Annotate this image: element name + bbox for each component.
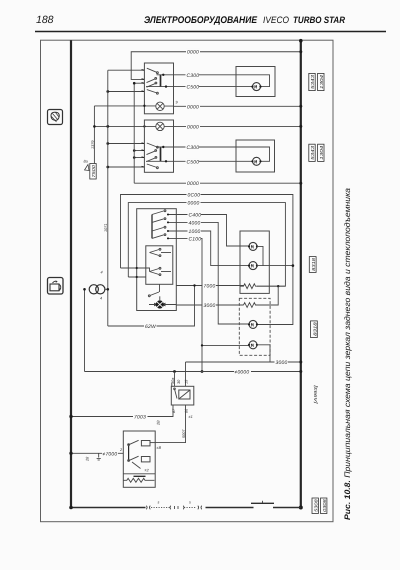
code box 5308 [312, 498, 318, 514]
svg-text:M: M [251, 343, 254, 349]
motor M1 [253, 83, 261, 91]
svg-text:5: 5 [189, 501, 191, 505]
svg-text:0000: 0000 [187, 50, 199, 56]
svg-text:0000: 0000 [187, 124, 199, 130]
svg-text:8a: 8a [84, 160, 88, 164]
relay K1 box [171, 386, 194, 405]
motor M4 [249, 262, 257, 270]
header rule [35, 31, 386, 33]
svg-text:1304: 1304 [319, 74, 324, 89]
wire 0000 lamp2 return [164, 125, 300, 127]
window switch box [123, 431, 155, 487]
inner diagonal [132, 462, 141, 469]
contact arm up [129, 440, 139, 445]
node: right rail top [299, 39, 303, 43]
contact arm 3 [147, 83, 156, 87]
svg-text:8318: 8318 [311, 257, 316, 271]
wire 0C00 [121, 195, 293, 325]
code box 1304 b [318, 144, 324, 161]
svg-text:C300: C300 [187, 73, 200, 79]
contact arm 4 [147, 164, 157, 168]
wire vertical feed left [84, 289, 86, 371]
svg-text:0C00: 0C00 [188, 193, 201, 199]
contact below inner box [150, 292, 159, 296]
contact arm r1 [152, 211, 164, 215]
switch box S2 [144, 120, 173, 172]
svg-text:8318: 8318 [312, 321, 317, 335]
contact arm 3 [147, 158, 156, 162]
svg-text:7003: 7003 [134, 415, 146, 421]
icon: rear-view mirror pictogram [48, 110, 63, 125]
lamp L2 [156, 122, 164, 130]
contact arm 2 [147, 79, 156, 83]
svg-text:M: M [254, 85, 257, 91]
node: bus-left rail junction [69, 506, 73, 510]
row4 entry wire [108, 166, 145, 168]
svg-text:C500: C500 [187, 85, 200, 91]
wire C500 to motor [174, 86, 253, 88]
wire 0000 lamp return [174, 105, 301, 107]
connector 8a arrow [85, 165, 90, 171]
contact row C500b inside [146, 160, 174, 162]
motor M2 [253, 157, 261, 165]
divider line [123, 473, 155, 475]
svg-text:≠B: ≠B [157, 446, 162, 450]
svg-text:28: 28 [85, 456, 89, 462]
wire C100 [176, 238, 202, 371]
svg-text:≠7000: ≠7000 [103, 451, 118, 457]
common bar [128, 444, 130, 461]
connector group on bus [170, 506, 184, 510]
bottom ground bus [71, 507, 146, 509]
svg-text:4: 4 [100, 297, 102, 301]
svg-text:0000: 0000 [187, 104, 199, 110]
right power rail [300, 40, 302, 507]
pin 15 wire up to 3000 [185, 362, 187, 386]
heater marks [134, 475, 146, 477]
svg-text:30a: 30a [171, 378, 175, 384]
wire C500b to motor [174, 160, 253, 162]
svg-text:IVECO: IVECO [263, 15, 289, 25]
svg-text:≠0000: ≠0000 [235, 370, 250, 376]
svg-text:4000: 4000 [189, 220, 201, 226]
panel lamp (filled) [156, 300, 164, 308]
contact row C500 inside [146, 86, 174, 88]
svg-text:1379: 1379 [91, 140, 95, 149]
contact bar [160, 75, 162, 87]
inner contact pair 1 [150, 250, 160, 256]
contact arm r2 [152, 219, 164, 223]
svg-text:0000: 0000 [187, 181, 199, 187]
inner contact pair 2 [150, 269, 160, 275]
wire pin1 to relay86 [150, 442, 155, 444]
code box 5343 b [309, 144, 315, 161]
contact arm r4 [152, 235, 164, 239]
contact arm down [129, 456, 139, 461]
contact row C300 inside [157, 74, 174, 76]
svg-text:62W: 62W [145, 324, 157, 330]
svg-text:5: 5 [158, 501, 160, 505]
wire C300 to motor [174, 74, 237, 76]
svg-text:ЭЛЕКТРООБОРУДОВАНИЕ: ЭЛЕКТРООБОРУДОВАНИЕ [144, 15, 258, 26]
row3 entry wire [134, 82, 144, 84]
svg-text:[A993]: [A993] [313, 384, 318, 405]
svg-text:0308: 0308 [322, 499, 327, 512]
lamp stubs [149, 304, 176, 306]
wire 0000 bottom of block2 [134, 182, 301, 184]
svg-text:C400: C400 [189, 213, 202, 219]
entry wires into inner box [121, 268, 150, 272]
outer diagram frame [41, 40, 334, 522]
wire +0000 main feed [85, 371, 301, 373]
svg-text:C300: C300 [187, 145, 200, 151]
row3 entry wire [134, 157, 144, 159]
svg-text:M: M [251, 244, 254, 250]
connector pair on bus [198, 506, 202, 510]
motor M5 [249, 320, 257, 328]
wire C400 [176, 215, 249, 247]
contact arm 4 [147, 90, 157, 93]
svg-text:4: 4 [101, 271, 103, 275]
row1 entry wire [108, 143, 145, 145]
wire 4000 [176, 222, 249, 324]
pin 30 wire up to feed [174, 372, 176, 387]
ground tick mark [97, 453, 101, 460]
svg-text:1304: 1304 [319, 145, 324, 160]
code box 1304 [318, 73, 324, 90]
code box 8318 b [311, 321, 318, 338]
pin marks S2 left [142, 143, 144, 167]
svg-text:0000: 0000 [188, 201, 200, 207]
contact arm r3 [152, 228, 164, 232]
terminal pin 2 [141, 457, 150, 462]
common bar [151, 215, 153, 239]
motor feed path inside [236, 75, 270, 87]
motor M6 [249, 341, 257, 349]
wire C300b to motor [174, 146, 237, 148]
contact arm 1 [147, 68, 157, 72]
connector box 7500 [90, 164, 96, 180]
lamp row wire left [94, 125, 155, 127]
connector pair on bus [146, 506, 150, 510]
relay coil [179, 390, 190, 399]
svg-text:C100: C100 [189, 236, 202, 242]
svg-text:2B: 2B [157, 420, 161, 426]
wire 0000 feed top [131, 52, 301, 80]
svg-text:5308: 5308 [313, 499, 318, 512]
pin marks S1 left [142, 70, 144, 92]
svg-text:M: M [254, 159, 257, 165]
lamp L1 [156, 102, 164, 110]
motor assembly box upper [240, 231, 269, 293]
switch box S1 [144, 63, 173, 114]
svg-text:7500: 7500 [91, 164, 96, 177]
wire 0000b2 [128, 203, 285, 287]
svg-text:5007: 5007 [182, 429, 186, 438]
contact arm 1 [147, 143, 157, 147]
wire vertical to connector 8a [93, 106, 95, 164]
svg-text:1000: 1000 [189, 229, 201, 235]
svg-text:7000: 7000 [204, 284, 216, 290]
svg-text:≠1: ≠1 [189, 415, 193, 419]
resistor R1 [240, 284, 257, 289]
mirror motor box 1 [236, 67, 275, 97]
terminal pin 1 [141, 441, 150, 446]
link vertical from S1 row3 to S2 and 0000 [133, 83, 135, 183]
switch unit box [137, 209, 177, 311]
pin 86 wire down to window switch [155, 405, 185, 443]
wire 3000 lamp return [176, 304, 243, 306]
link M3-M4 right [257, 246, 263, 265]
wire 1000 [176, 231, 249, 266]
lamp row wire [94, 105, 173, 107]
feed wire from left rail [71, 452, 123, 454]
wire M4 to 0C00 vertical [257, 265, 293, 267]
mirror motor box 2 [236, 140, 275, 172]
motor M3 [249, 242, 257, 250]
node: bus-right rail junction [299, 506, 303, 510]
contact row C300b inside [157, 146, 174, 148]
wire 62W illumination [108, 286, 195, 327]
svg-text:1071: 1071 [104, 224, 108, 232]
contact arm 2 [147, 151, 156, 155]
code box 0308 [321, 498, 327, 514]
wire M6 to 3000 bottom [257, 345, 270, 362]
icon: power window pictogram [48, 278, 64, 295]
svg-text:TURBO STAR: TURBO STAR [293, 15, 345, 25]
svg-text:C500: C500 [187, 159, 200, 165]
motor feed path inside [236, 147, 270, 161]
row stubs to right edge [167, 215, 176, 239]
svg-text:5343: 5343 [310, 145, 315, 160]
svg-text:3000: 3000 [276, 360, 288, 366]
inline connector (interlocked rings) [88, 284, 109, 295]
wire vertical 1071 [107, 70, 109, 326]
row1 entry wire [108, 69, 145, 71]
inner contact box [146, 246, 173, 284]
svg-text:M: M [251, 264, 254, 270]
svg-text:Рис. 10.8. Принципиальная схем: Рис. 10.8. Принципиальная схема цепи зер… [343, 187, 352, 520]
relay contact [175, 389, 178, 399]
left power rail [70, 40, 72, 507]
code box 8318 [309, 257, 316, 273]
svg-text:188: 188 [36, 14, 54, 26]
code box 5343 [309, 73, 315, 90]
contact bar [160, 147, 162, 161]
resistor R2 [244, 303, 258, 308]
svg-text:5343: 5343 [310, 74, 315, 89]
wire 7000 heater feed [176, 285, 243, 287]
pin 87 wire down-left to rail [71, 405, 173, 417]
wire 3000 to rail [186, 361, 301, 363]
row2 entry wire [134, 150, 144, 152]
switch (closed) in ground bus [251, 502, 274, 504]
row4 entry wire [108, 91, 145, 93]
heater resistor zigzag [123, 478, 154, 482]
svg-text:3000: 3000 [204, 303, 216, 309]
pin 30a stub [171, 383, 173, 386]
svg-text:M: M [251, 322, 254, 328]
